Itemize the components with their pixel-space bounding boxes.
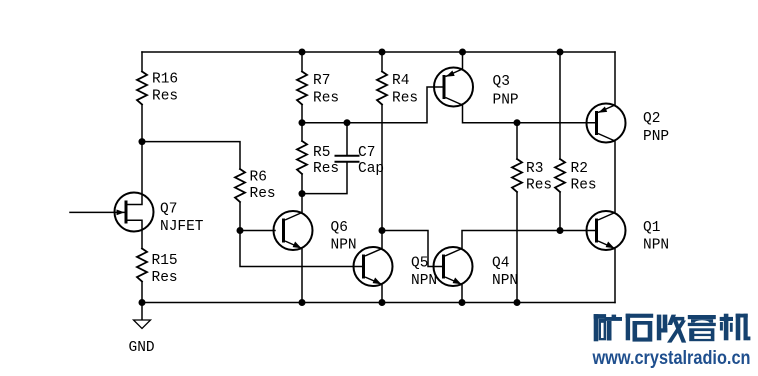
node gnd rail xyxy=(139,299,146,306)
ground xyxy=(134,320,151,329)
watermark logo xyxy=(594,314,622,341)
svg-text:PNP: PNP xyxy=(643,129,669,145)
wire Q4 collector to Q1 base xyxy=(462,231,595,250)
wire R2 top xyxy=(559,52,561,159)
wire Q3 emitter to rail xyxy=(462,52,464,69)
resistor R4 xyxy=(377,72,387,105)
wire Q3 collector to Q2 base xyxy=(463,105,596,123)
svg-text:Q4: Q4 xyxy=(492,256,509,272)
svg-text:R16: R16 xyxy=(152,72,178,88)
wire node to Q4 base xyxy=(382,231,444,267)
resistor R15 xyxy=(137,249,147,282)
wire R7 bottom xyxy=(301,105,303,123)
node Q5 emitter xyxy=(379,299,386,306)
svg-text:Res: Res xyxy=(250,186,276,202)
svg-text:Q3: Q3 xyxy=(493,74,510,90)
svg-text:Q1: Q1 xyxy=(643,220,660,236)
svg-text:NPN: NPN xyxy=(331,238,357,254)
svg-text:NPN: NPN xyxy=(492,273,518,289)
node rail-R4 xyxy=(379,49,386,56)
wire R15 to bottom rail xyxy=(141,282,143,303)
node rail-R7 xyxy=(299,49,306,56)
resistor R7 xyxy=(297,72,307,105)
svg-text:PNP: PNP xyxy=(493,93,519,109)
wire R5 bottom xyxy=(301,174,303,194)
wire node to Q7 drain xyxy=(126,142,142,205)
capacitor C7 xyxy=(336,156,359,162)
svg-text:NJFET: NJFET xyxy=(160,219,204,235)
wire Q7 source to R15 xyxy=(126,220,142,248)
wire net to Q3 base xyxy=(302,87,444,123)
resistor R16 xyxy=(137,72,147,105)
transistor Q2 PNP xyxy=(587,104,626,143)
wire branch to R6 xyxy=(142,142,240,169)
svg-text:Res: Res xyxy=(152,270,178,286)
svg-text:Res: Res xyxy=(392,91,418,107)
node R16 bottom xyxy=(139,138,146,145)
svg-text:R4: R4 xyxy=(392,73,409,89)
wire ground stub xyxy=(141,303,143,320)
wire R2 bottom xyxy=(559,192,561,231)
svg-text:R2: R2 xyxy=(571,161,588,177)
svg-text:Res: Res xyxy=(571,178,597,194)
wire R5 top xyxy=(301,123,303,141)
node R3 bottom xyxy=(514,299,521,306)
resistor R3 xyxy=(512,159,522,192)
wire Q5 collector xyxy=(381,231,383,250)
transistor Q1 NPN xyxy=(587,211,626,250)
svg-text:C7: C7 xyxy=(358,145,375,161)
svg-text:Q6: Q6 xyxy=(331,220,348,236)
svg-text:www.crystalradio.cn: www.crystalradio.cn xyxy=(592,348,751,369)
svg-text:NPN: NPN xyxy=(411,273,437,289)
svg-text:Res: Res xyxy=(152,89,178,105)
svg-text:R3: R3 xyxy=(526,161,543,177)
svg-text:R5: R5 xyxy=(313,145,330,161)
wire R6 node to Q5 base xyxy=(240,231,364,267)
wire C7 bottom lead xyxy=(302,163,347,194)
svg-text:Q5: Q5 xyxy=(411,256,428,272)
node C7 top xyxy=(344,119,351,126)
node rail-R2 xyxy=(557,49,564,56)
resistor R5 xyxy=(297,141,307,174)
node R4-Q5-Q4 xyxy=(379,227,386,234)
wire left vertical upper xyxy=(141,52,143,72)
node rail-Q3 xyxy=(459,49,466,56)
wire Q5 emitter xyxy=(381,285,383,303)
svg-text:Res: Res xyxy=(313,91,339,107)
svg-text:GND: GND xyxy=(129,340,155,356)
node R3 top xyxy=(514,119,521,126)
wire Q4 emitter xyxy=(461,285,463,303)
transistor Q6 NPN xyxy=(274,211,313,250)
node R5-C7-Q6 xyxy=(299,190,306,197)
wire Q1 emitter to bottom rail xyxy=(614,249,616,303)
node R6 bottom xyxy=(237,227,244,234)
node R7-R5 xyxy=(299,119,306,126)
wire R3 bottom xyxy=(516,192,518,303)
wire bottom rail xyxy=(142,302,615,304)
wire C7 top lead xyxy=(346,123,348,155)
svg-text:Res: Res xyxy=(526,178,552,194)
wire R3 top xyxy=(516,123,518,159)
node R2-Q1 base xyxy=(557,227,564,234)
svg-text:Cap: Cap xyxy=(358,161,384,177)
svg-text:R15: R15 xyxy=(152,253,178,269)
wire Q6 emitter xyxy=(301,249,303,303)
transistor Q7 NJFET xyxy=(115,193,154,232)
node Q4 emitter xyxy=(459,299,466,306)
transistor Q5 NPN xyxy=(354,247,393,286)
wire top rail xyxy=(142,51,615,53)
transistor Q4 NPN xyxy=(434,247,473,286)
wire Q7 gate lead xyxy=(70,211,124,213)
wire Q2 collector to Q1 collector xyxy=(614,141,616,213)
node Q6 emitter xyxy=(299,299,306,306)
svg-text:NPN: NPN xyxy=(643,238,669,254)
svg-text:Q2: Q2 xyxy=(643,111,660,127)
wire R6 bottom to Q6 base xyxy=(240,203,275,231)
resistor R2 xyxy=(555,159,565,192)
wire Q6 collector xyxy=(301,194,303,213)
svg-text:R7: R7 xyxy=(313,73,330,89)
svg-text:R6: R6 xyxy=(250,170,267,186)
svg-text:Q7: Q7 xyxy=(160,202,177,218)
resistor R6 xyxy=(235,169,245,202)
wire R4 top xyxy=(381,52,383,72)
wire R4 bottom to node xyxy=(381,105,383,231)
wire R7 top xyxy=(301,52,303,72)
wire R16 to node xyxy=(141,105,143,142)
transistor Q3 PNP xyxy=(434,68,473,107)
svg-text:Res: Res xyxy=(313,161,339,177)
wire Q2 emitter to rail xyxy=(614,52,616,105)
